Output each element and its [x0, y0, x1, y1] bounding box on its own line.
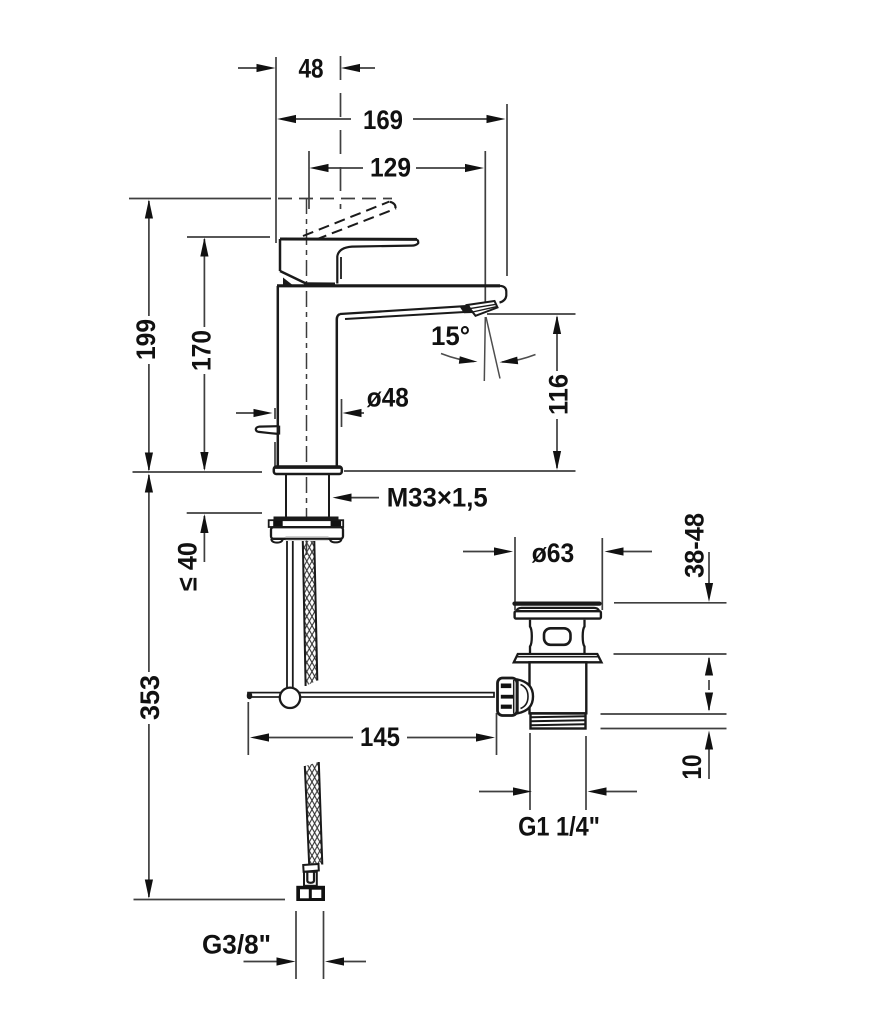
dimension 48 (top) [238, 56, 375, 243]
dimension G1 1/4 [479, 733, 637, 810]
dimension 10 [705, 731, 713, 780]
dimension d63 [463, 537, 652, 610]
faucet solid parts [256, 202, 506, 543]
mounting nut [271, 527, 343, 542]
dimension d48 [236, 399, 364, 466]
svg-text:10: 10 [678, 754, 707, 779]
svg-text:ø48: ø48 [367, 383, 409, 412]
dimension 116 (spout height) [487, 314, 576, 470]
dimension 199 (left) [129, 199, 392, 472]
basin flange [514, 654, 602, 662]
flexible hose upper segment [303, 541, 318, 686]
spout body [277, 286, 506, 466]
aerator outlet [460, 301, 498, 316]
horizontal actuating rod [247, 692, 494, 699]
svg-text:≤ 40: ≤ 40 [172, 542, 203, 591]
drain assembly [498, 604, 602, 729]
handle lever raised (dashed) [303, 202, 396, 240]
svg-text:145: 145 [360, 723, 400, 753]
dimension 129 [309, 151, 485, 302]
plug cap [515, 601, 600, 605]
overflow window [544, 628, 571, 645]
svg-text:38-48: 38-48 [679, 513, 710, 578]
pop-up pull rod vertical [287, 541, 293, 690]
clamp washer [269, 518, 344, 527]
svg-text:129: 129 [370, 153, 411, 182]
dimension max 40 [187, 513, 262, 562]
side knob (pop-up pull) [256, 426, 280, 435]
svg-text:199: 199 [132, 319, 161, 360]
threaded tailpiece [531, 714, 586, 729]
centerline faucet axis [306, 198, 308, 558]
rod ball joint [280, 688, 300, 708]
dimension 353 (left) [134, 474, 286, 900]
mounting deck line [133, 471, 576, 472]
dimension 170 (left) [187, 237, 270, 471]
15 degree spray cone [441, 317, 536, 381]
svg-text:116: 116 [543, 374, 574, 415]
top flange [515, 611, 601, 618]
handle lever [280, 239, 418, 285]
base flange [274, 467, 342, 475]
svg-text:15°: 15° [431, 320, 470, 351]
svg-text:G1 1/4": G1 1/4" [518, 812, 600, 842]
svg-text:48: 48 [298, 55, 323, 84]
dimension G3/8 [244, 911, 367, 979]
svg-text:ø63: ø63 [532, 539, 575, 568]
dimension basin range (unlabeled) [601, 657, 727, 729]
waste body [530, 662, 587, 713]
dimension 145 [248, 702, 496, 755]
hose end fitting [296, 864, 325, 901]
dimension 169 [277, 104, 507, 276]
M33x1,5 pointer [333, 494, 380, 502]
svg-text:170: 170 [187, 330, 216, 371]
threaded shank [286, 475, 329, 517]
svg-text:M33×1,5: M33×1,5 [387, 482, 488, 513]
coupling nut [498, 678, 518, 716]
svg-text:169: 169 [363, 106, 403, 136]
flexible hose lower segment [305, 762, 323, 868]
svg-text:G3/8": G3/8" [202, 929, 271, 959]
dimension 38-48 [614, 552, 727, 654]
ball rod collar [518, 680, 534, 714]
neck [530, 620, 585, 653]
svg-text:353: 353 [135, 675, 165, 720]
